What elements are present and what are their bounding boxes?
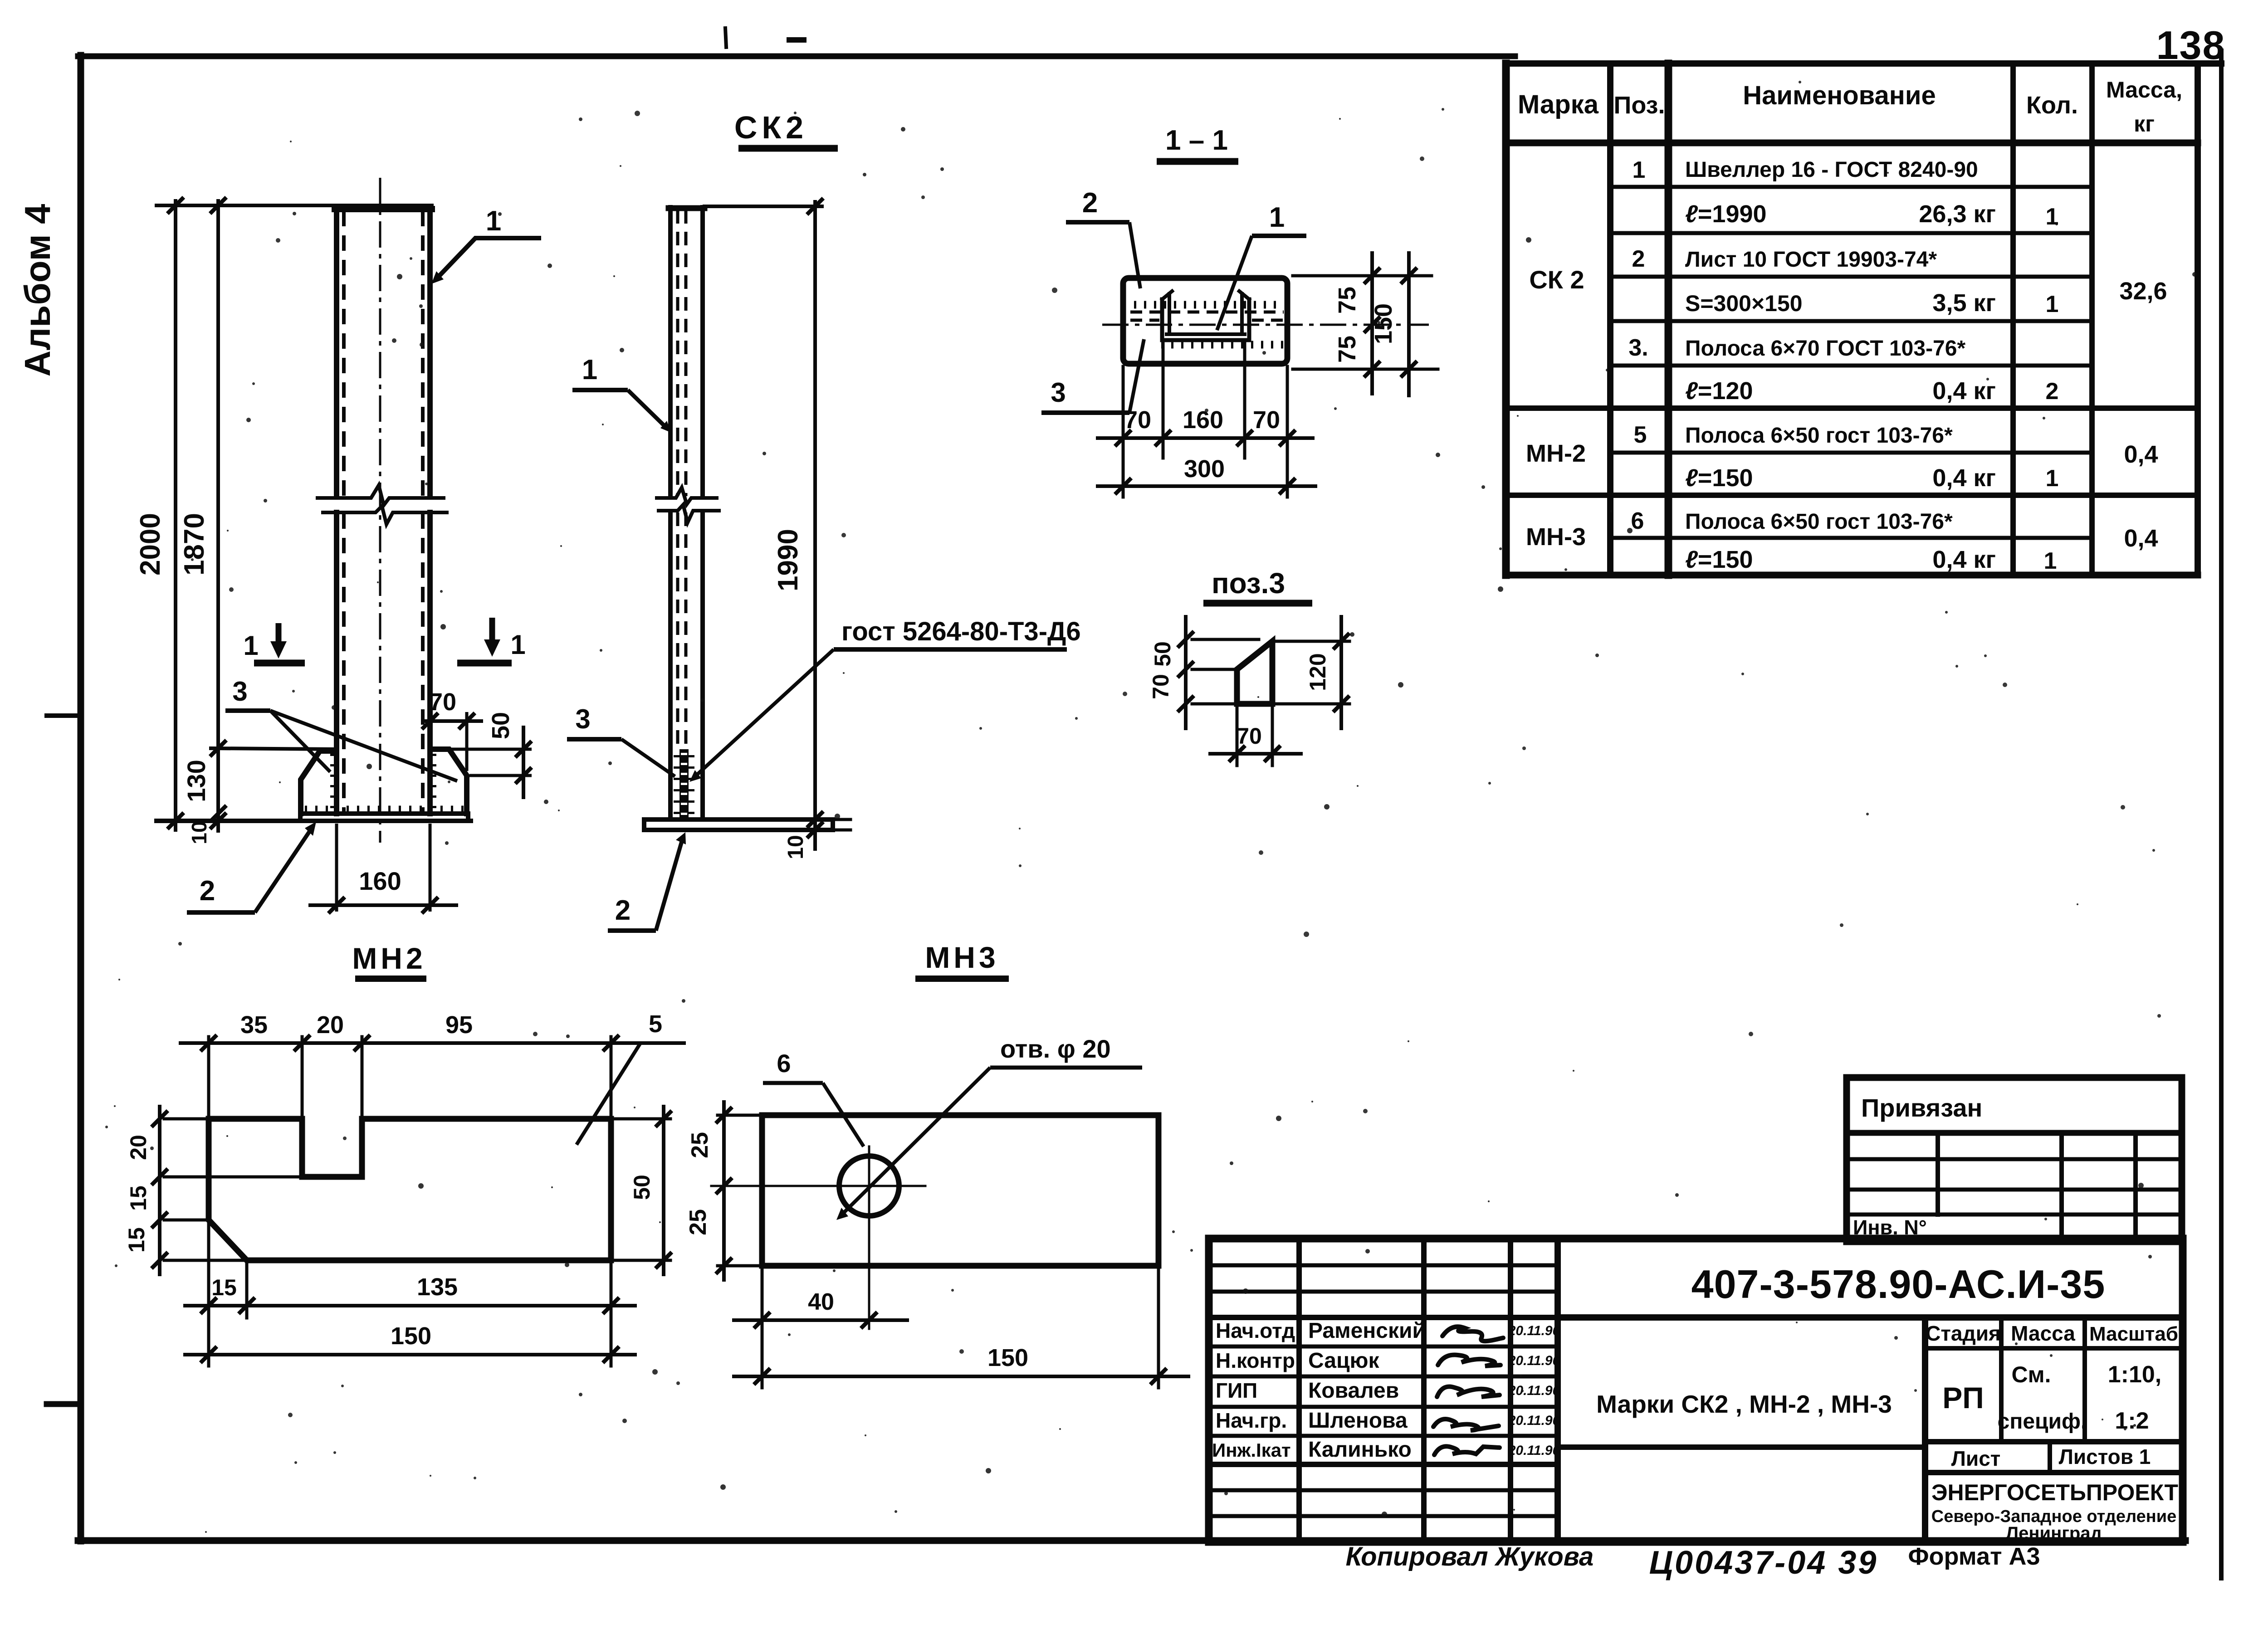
svg-text:ℓ=1990: ℓ=1990 (1685, 200, 1767, 228)
svg-text:ЭНЕРГОСЕТЬПРОЕКТ: ЭНЕРГОСЕТЬПРОЕКТ (1931, 1480, 2178, 1505)
svg-text:70: 70 (1237, 723, 1262, 749)
svg-text:25: 25 (685, 1209, 711, 1235)
MN3 hole centerline vertical (868, 1146, 870, 1329)
svg-text:407-3-578.90-АС.И-35: 407-3-578.90-АС.И-35 (1691, 1262, 2106, 1307)
svg-text:Шленова: Шленова (1308, 1409, 1408, 1433)
list col divider (2048, 1442, 2052, 1473)
svg-text:Нач.гр.: Нач.гр. (1216, 1409, 1287, 1432)
MN2 plate outline (209, 1119, 611, 1260)
side base plate ends (642, 819, 646, 830)
privyazan row line 3 (1847, 1213, 2182, 1217)
svg-text:МН-3: МН-3 (1526, 523, 1586, 551)
border frame bottom (78, 1537, 2185, 1544)
pos.3 extension top (1192, 638, 1259, 641)
svg-text:5: 5 (1634, 422, 1647, 448)
svg-text:20.11.90: 20.11.90 (1508, 1323, 1560, 1338)
detail title pos.3 (1203, 567, 1312, 603)
svg-text:70: 70 (1253, 406, 1280, 434)
svg-text:2: 2 (1082, 187, 1098, 219)
side hidden line 1 (dashed) (676, 210, 679, 496)
pos.3 dim extensions down (1236, 707, 1239, 766)
privyazan col line 1 (1936, 1133, 1940, 1215)
svg-text:20: 20 (317, 1011, 344, 1039)
gusset right (pos.3) (430, 749, 467, 814)
right dim extension top (1293, 274, 1432, 278)
border frame top (78, 54, 1515, 59)
svg-text:Н.контр.: Н.контр. (1216, 1349, 1301, 1372)
parts table col line Poz (1665, 63, 1672, 575)
svg-text:6: 6 (777, 1049, 791, 1078)
parts table right edge (2195, 63, 2201, 575)
svg-text:S=300×150: S=300×150 (1685, 291, 1803, 316)
parts table header bottom (1506, 140, 2198, 146)
pos.3 dim line left 50/70 (1184, 617, 1188, 728)
svg-text:Марки СК2 , МН-2 , МН-3: Марки СК2 , МН-2 , МН-3 (1596, 1390, 1892, 1418)
svg-text:Поз.: Поз. (1614, 92, 1665, 119)
right dim extension bottom (1293, 368, 1438, 371)
bottom dim extensions (1122, 366, 1125, 497)
side bottom extensions for 10 dim (835, 818, 850, 821)
svg-text:3: 3 (1051, 377, 1066, 408)
svg-text:1: 1 (2046, 465, 2059, 492)
stadia header bottom (1925, 1346, 2183, 1351)
MN3 callout 6 (763, 1049, 864, 1146)
MN3 plate outline (762, 1115, 1158, 1266)
weld spec GOST 5264-80-T3-D6 (689, 617, 1081, 782)
svg-text:300: 300 (1184, 455, 1225, 483)
column front outline left edge (334, 208, 339, 497)
privyazan row line 1 (1847, 1157, 2182, 1161)
parts table left edge (1502, 63, 1510, 575)
svg-text:6: 6 (1631, 508, 1644, 534)
svg-text:1: 1 (582, 354, 597, 385)
svg-text:70: 70 (429, 688, 456, 716)
callout 2 (base plate) front view (187, 822, 316, 912)
MN3 bottom extensions (761, 1269, 764, 1388)
svg-text:1 – 1: 1 – 1 (1165, 125, 1228, 156)
svg-text:70: 70 (1148, 674, 1173, 699)
break line upper (318, 485, 444, 505)
hidden flange line left (dashed) (342, 211, 346, 496)
signature squiggles (1433, 1327, 1503, 1455)
view title MH3 (915, 941, 1009, 979)
base plate right end (466, 814, 470, 821)
svg-text:0,4 кг: 0,4 кг (1932, 546, 1996, 573)
column front top edge (335, 206, 432, 212)
svg-text:150: 150 (987, 1344, 1028, 1371)
top extension line (156, 204, 432, 207)
svg-text:1:2: 1:2 (2115, 1408, 2149, 1434)
pencil mark top (725, 28, 726, 47)
svg-text:ℓ=120: ℓ=120 (1685, 377, 1753, 405)
svg-text:Листов 1: Листов 1 (2059, 1445, 2151, 1468)
side break line upper (657, 488, 717, 504)
MN2 dim line left 20/15/15 (158, 1107, 161, 1274)
svg-text:20.11.90: 20.11.90 (1508, 1353, 1560, 1368)
doc number cell bottom (1558, 1314, 2183, 1321)
svg-text:15: 15 (126, 1185, 151, 1211)
MN2 dim line right 50 (662, 1107, 665, 1274)
svg-text:1: 1 (2046, 204, 2059, 230)
dim 160 (channel width) (308, 824, 458, 913)
dim 50 (gusset drop) (449, 712, 532, 799)
group line CK2 / MH-2 (1506, 405, 2198, 411)
callout 2 section (1066, 187, 1140, 288)
marki cell bottom (1558, 1444, 1925, 1450)
svg-text:3,5 кг: 3,5 кг (1932, 289, 1996, 317)
side column top edge (669, 205, 704, 211)
side break line lower (659, 505, 719, 522)
svg-text:75: 75 (1334, 287, 1361, 314)
svg-text:0,4 кг: 0,4 кг (1932, 377, 1996, 405)
svg-text:поз.3: поз.3 (1212, 567, 1285, 600)
svg-text:1: 1 (243, 630, 258, 661)
weld ticks below channel (1161, 341, 1287, 349)
side column right edge (700, 207, 705, 497)
svg-text:Масса,: Масса, (2106, 77, 2182, 102)
side hidden line 2 (dashed) (684, 210, 688, 496)
callout 3 side view (567, 704, 675, 776)
callout 1 (channel) front view (431, 205, 541, 284)
base plate section outline (1123, 278, 1287, 364)
privyazan box outline (1847, 1078, 2182, 1242)
MN3 hole centerline horizontal (711, 1185, 925, 1187)
parts table bottom edge (1506, 572, 2198, 579)
title block outline (1209, 1239, 2183, 1542)
svg-text:Формат А3: Формат А3 (1908, 1543, 2040, 1570)
pos.3 extension bottom (1192, 702, 1349, 706)
svg-text:МН-2: МН-2 (1526, 440, 1586, 467)
svg-text:10: 10 (784, 835, 808, 859)
massa col line (2082, 1317, 2087, 1442)
svg-text:50: 50 (629, 1175, 655, 1200)
svg-text:ГИП: ГИП (1216, 1379, 1257, 1402)
svg-text:ℓ=150: ℓ=150 (1685, 464, 1753, 492)
svg-text:Ленинград: Ленинград (2006, 1523, 2102, 1543)
side top extension line (704, 205, 822, 208)
svg-text:1990: 1990 (772, 529, 804, 591)
weld ticks along column right edge (428, 754, 436, 812)
svg-text:Калинько: Калинько (1308, 1438, 1412, 1462)
svg-text:Копировал Жукова: Копировал Жукова (1346, 1542, 1594, 1571)
speckle marks (789, 37, 804, 43)
svg-text:1: 1 (1269, 202, 1285, 233)
svg-text:35: 35 (240, 1011, 268, 1039)
border frame left (78, 55, 84, 1541)
svg-text:160: 160 (1183, 406, 1223, 434)
base plate left end (298, 814, 303, 821)
pos.3 gusset shape (1237, 641, 1272, 704)
dim line 70/160/70 (1098, 436, 1313, 440)
side column left edge (668, 207, 673, 497)
privyazan row line 2 (1847, 1188, 2182, 1192)
svg-text:ℓ=150: ℓ=150 (1685, 546, 1753, 573)
dim line 1990 (813, 202, 817, 849)
border frame right (2219, 51, 2224, 1578)
svg-text:26,3 кг: 26,3 кг (1919, 200, 1996, 228)
callout 3 section (1041, 339, 1144, 413)
parts table col line Naimenovanie (2010, 63, 2016, 575)
hidden strip lines in plate (dashed) (1130, 311, 1284, 314)
pos.3 dim line right 120 (1339, 617, 1343, 728)
svg-text:2: 2 (2046, 378, 2059, 405)
stadia col line (1999, 1317, 2004, 1442)
margin tick 2 (47, 1401, 80, 1407)
svg-text:2000: 2000 (135, 513, 166, 576)
svg-text:Ц00437-04 39: Ц00437-04 39 (1649, 1545, 1878, 1581)
sig col line 3 (1508, 1239, 1513, 1542)
svg-text:50: 50 (487, 712, 514, 739)
rp row bottom (1925, 1439, 2183, 1444)
MN2 left extensions (164, 1117, 205, 1121)
dim line 75/75 (1370, 253, 1374, 394)
svg-text:Лист 10 ГОСТ 19903-74*: Лист 10 ГОСТ 19903-74* (1685, 248, 1937, 272)
svg-text:Альбом 4: Альбом 4 (17, 204, 58, 376)
svg-text:75: 75 (1334, 336, 1361, 363)
callout 1 section (1217, 202, 1306, 330)
dim line 1870 (216, 201, 220, 831)
svg-text:1870: 1870 (179, 513, 210, 576)
svg-text:Привязан: Привязан (1861, 1093, 1982, 1122)
margin tick 1 (47, 713, 80, 718)
callout 3 (gussets) front view (225, 676, 457, 781)
side base plate bottom (644, 828, 833, 832)
MN3 left extensions (718, 1114, 758, 1117)
svg-text:отв. φ 20: отв. φ 20 (1000, 1034, 1111, 1063)
MN3 dim line 150 (734, 1375, 1188, 1378)
svg-text:160: 160 (359, 867, 401, 895)
sig col line 2 (1421, 1239, 1427, 1542)
svg-text:РП: РП (1942, 1381, 1984, 1415)
svg-text:1: 1 (2044, 548, 2057, 574)
svg-text:Стадия: Стадия (1926, 1322, 2001, 1345)
svg-text:Ковалев: Ковалев (1308, 1379, 1399, 1403)
svg-text:3: 3 (575, 704, 590, 734)
view title MH2 (352, 941, 426, 979)
svg-text:специф.: специф. (1998, 1410, 2087, 1434)
sig row lines (1209, 1263, 1558, 1268)
section title 1-1 (1157, 125, 1238, 161)
svg-text:МН3: МН3 (925, 941, 999, 974)
svg-text:10: 10 (187, 821, 211, 844)
svg-text:15: 15 (124, 1227, 149, 1253)
svg-text:кг: кг (2134, 111, 2155, 137)
gusset top extension line (211, 748, 337, 749)
column centerline (dash-dot) (379, 178, 381, 843)
MN3 hole note otv d20 (836, 1034, 1142, 1220)
svg-text:Наименование: Наименование (1743, 81, 1936, 110)
svg-text:1:10,: 1:10, (2108, 1361, 2162, 1388)
svg-text:Полоса 6×50 гост 103-76*: Полоса 6×50 гост 103-76* (1685, 424, 1953, 448)
svg-text:95: 95 (445, 1011, 473, 1039)
MN2 bottom extensions (207, 1224, 210, 1366)
list row bottom (1925, 1470, 2183, 1475)
hidden flange line right (dashed) (421, 211, 425, 496)
MN2 right extensions (615, 1117, 670, 1121)
channel section left flange (1160, 299, 1164, 340)
dim line 300 (1098, 484, 1315, 488)
sig col line 1 (1296, 1239, 1302, 1542)
svg-text:гост 5264-80-Т3-Д6: гост 5264-80-Т3-Д6 (841, 617, 1081, 646)
svg-text:5: 5 (649, 1010, 662, 1038)
right subtable left edge (1922, 1317, 1928, 1542)
svg-text:130: 130 (182, 760, 210, 802)
svg-text:1: 1 (510, 629, 525, 660)
pos.3 extension mid (1192, 668, 1234, 671)
channel section web bottom (1162, 338, 1249, 342)
MN2 top extensions (207, 1037, 210, 1116)
privyazan col line 3 (2133, 1133, 2138, 1242)
weld ticks along plate top (305, 806, 464, 815)
dim line 2000 (174, 201, 177, 830)
section mark 1 right (457, 618, 526, 663)
privyazan col line 2 (2059, 1133, 2064, 1242)
parts table row lines (1610, 185, 2092, 189)
weld ticks above channel (1134, 301, 1284, 309)
svg-text:120: 120 (1305, 653, 1330, 691)
svg-text:Марка: Марка (1518, 90, 1599, 119)
svg-text:2: 2 (615, 895, 631, 926)
welded strip edge-on (pos.3 bar) (679, 749, 689, 819)
svg-text:См.: См. (2012, 1362, 2051, 1387)
svg-text:2: 2 (200, 875, 215, 907)
dim line 150 right (1407, 253, 1411, 395)
callout 1 side view (572, 354, 671, 433)
svg-text:25: 25 (687, 1132, 713, 1158)
privyazan header line (1847, 1130, 2182, 1136)
svg-text:1: 1 (1633, 157, 1646, 183)
gusset left (pos.3) (301, 751, 337, 814)
MN3 hole circle (839, 1156, 899, 1216)
section centerline horizontal (1102, 324, 1429, 326)
callout 2 side view (608, 832, 686, 931)
svg-text:3.: 3. (1628, 335, 1648, 361)
parts table col line Kol (2089, 63, 2095, 575)
break line lower (323, 506, 447, 524)
MN2 dim line 150 (185, 1353, 635, 1356)
MN2 dim line top 35/20/95 (181, 1041, 644, 1045)
weld ticks along column left edge (330, 754, 338, 812)
svg-text:Лист: Лист (1951, 1447, 2001, 1470)
svg-text:Полоса 6×70 ГОСТ 103-76*: Полоса 6×70 ГОСТ 103-76* (1685, 337, 1965, 361)
MN2 callout 5 (577, 1010, 686, 1145)
svg-text:135: 135 (417, 1273, 458, 1301)
base plate top edge (300, 811, 468, 816)
svg-text:МН2: МН2 (352, 941, 426, 975)
svg-text:15: 15 (211, 1275, 237, 1300)
svg-text:Раменский: Раменский (1308, 1319, 1426, 1343)
MN2 dim line 15/135 (185, 1304, 635, 1307)
svg-text:Масштаб: Масштаб (2089, 1323, 2178, 1345)
svg-text:Кол.: Кол. (2026, 92, 2078, 119)
svg-text:20.11.90: 20.11.90 (1508, 1383, 1560, 1398)
parts table col line Marka (1607, 63, 1613, 575)
svg-text:40: 40 (808, 1289, 834, 1315)
dim ticks front view (167, 197, 184, 214)
svg-text:СК 2: СК 2 (1529, 265, 1584, 294)
MN3 dim line 40 (734, 1318, 907, 1322)
parts table top edge (1506, 60, 2221, 67)
svg-text:1: 1 (2046, 291, 2059, 317)
dim 70 (gusset width) (421, 688, 483, 771)
svg-text:20: 20 (126, 1135, 151, 1160)
svg-text:20.11.90: 20.11.90 (1508, 1413, 1560, 1428)
view title CK2 (734, 110, 838, 148)
pos.3 extension top right (1276, 640, 1349, 643)
svg-text:0,4: 0,4 (2124, 525, 2158, 552)
svg-text:150: 150 (1370, 303, 1397, 344)
channel section right flange (1247, 299, 1251, 340)
svg-text:Масса: Масса (2011, 1322, 2075, 1345)
svg-text:Нач.отд.: Нач.отд. (1216, 1319, 1301, 1342)
group line MH-2 / MH-3 (1506, 493, 2198, 498)
section mark 1 left (243, 623, 305, 663)
svg-text:Инж.Iкат: Инж.Iкат (1212, 1439, 1291, 1461)
sig col line 4 / doc cell left (1554, 1239, 1561, 1542)
svg-text:Сацюк: Сацюк (1308, 1349, 1379, 1373)
svg-text:1: 1 (486, 205, 501, 237)
svg-text:Швеллер 16 - ГОСТ 8240-90: Швеллер 16 - ГОСТ 8240-90 (1685, 158, 1978, 182)
side base plate top (644, 817, 833, 822)
MN3 dim line left 25/25 (722, 1102, 726, 1280)
pos.3 dim line bottom 70 (1210, 752, 1301, 756)
svg-text:50: 50 (1150, 641, 1175, 667)
base plate bottom edge / bottom extension line (156, 819, 471, 823)
svg-text:2: 2 (1632, 246, 1645, 272)
svg-text:0,4: 0,4 (2124, 441, 2158, 468)
svg-text:СК2: СК2 (734, 110, 808, 145)
column front outline right edge (427, 208, 433, 497)
svg-text:3: 3 (232, 676, 247, 707)
svg-text:Полоса 6×50 гост 103-76*: Полоса 6×50 гост 103-76* (1685, 510, 1953, 534)
svg-text:20.11.90: 20.11.90 (1508, 1443, 1560, 1458)
svg-text:0,4 кг: 0,4 кг (1932, 464, 1996, 492)
svg-text:150: 150 (391, 1322, 431, 1350)
svg-text:32,6: 32,6 (2119, 278, 2167, 305)
